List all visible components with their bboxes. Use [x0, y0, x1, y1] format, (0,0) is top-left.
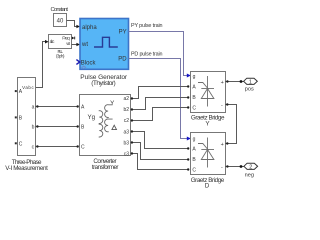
- svg-text:C: C: [81, 144, 85, 150]
- wire meas a to transformer A: [36, 105, 79, 107]
- svg-text:a2: a2: [123, 96, 129, 102]
- svg-text:b3: b3: [123, 140, 129, 146]
- wire Vabc to PLL abc: [36, 40, 49, 88]
- wire c2 to Y bridge C: [131, 106, 190, 121]
- pulse waveform icon: [94, 37, 118, 47]
- transformer Converter transformer block: [80, 95, 131, 171]
- svg-text:g: g: [193, 137, 196, 143]
- svg-text:a: a: [32, 104, 35, 110]
- svg-text:PY pulse train: PY pulse train: [131, 23, 163, 29]
- wire a2 to Y bridge A: [131, 85, 190, 99]
- svg-text:transformer: transformer: [92, 164, 119, 171]
- svg-text:(Thyristor): (Thyristor): [91, 80, 116, 87]
- wire Y+ to pos port: [225, 80, 244, 83]
- wire meas b to transformer B: [36, 125, 79, 127]
- svg-text:1: 1: [249, 80, 252, 86]
- Three-Phase V-I Measurement block: [5, 78, 48, 172]
- svg-text:-: -: [221, 102, 223, 108]
- svg-text:PD pulse train: PD pulse train: [131, 51, 163, 57]
- svg-text:pos: pos: [245, 87, 254, 93]
- constant block "40": [51, 7, 69, 27]
- svg-text:b2: b2: [123, 107, 129, 113]
- svg-text:PY: PY: [119, 29, 127, 35]
- svg-text:-: -: [221, 164, 223, 170]
- svg-text:Yg: Yg: [88, 114, 96, 121]
- wire PD pulse train: [129, 51, 191, 140]
- svg-text:Freq: Freq: [62, 35, 70, 40]
- svg-text:(3ph): (3ph): [56, 53, 65, 58]
- Graetz Bridge D block: [191, 133, 226, 190]
- svg-text:C: C: [19, 141, 23, 147]
- Graetz Bridge Y block: [191, 72, 226, 128]
- wire b3 to D bridge B: [131, 141, 190, 160]
- thyristor icon Y: [207, 76, 209, 107]
- svg-text:b: b: [32, 124, 35, 130]
- wire c3 to D bridge C: [131, 152, 190, 170]
- svg-text:c2: c2: [124, 118, 130, 124]
- svg-text:C: C: [192, 168, 196, 174]
- winding secondary lower Delta: [105, 119, 113, 132]
- svg-text:Vabc: Vabc: [22, 85, 34, 90]
- svg-text:Block: Block: [81, 60, 97, 66]
- svg-text:g: g: [193, 74, 196, 80]
- svg-text:2: 2: [249, 165, 252, 171]
- thyristor icon D: [207, 138, 209, 168]
- Block input chevron: [76, 60, 79, 65]
- wire PLL wt to Pulse Generator wt: [72, 43, 81, 47]
- wire Constant to alpha: [67, 21, 81, 29]
- svg-text:C: C: [192, 106, 196, 112]
- wire b2 to Y bridge B: [131, 96, 190, 110]
- winding primary lower: [99, 124, 103, 137]
- svg-text:V-I Measurement: V-I Measurement: [5, 165, 48, 172]
- svg-text:c3: c3: [124, 152, 130, 158]
- svg-text:abc: abc: [50, 39, 56, 44]
- svg-text:Constant: Constant: [51, 7, 69, 13]
- node neg connection port 2: [244, 163, 258, 178]
- svg-text:neg: neg: [245, 172, 254, 178]
- op-amp Pulse Generator (Thyristor) block: [76, 19, 128, 88]
- unconnected input stubs: [15, 90, 17, 92]
- svg-text:wt: wt: [81, 42, 88, 48]
- winding secondary upper Y: [105, 105, 113, 118]
- svg-text:40: 40: [57, 18, 64, 24]
- PLL block: [49, 35, 72, 59]
- svg-text:alpha: alpha: [82, 25, 97, 31]
- svg-text:a3: a3: [123, 129, 129, 135]
- svg-text:D: D: [205, 183, 210, 190]
- svg-text:+: +: [221, 142, 224, 148]
- svg-text:+: +: [221, 80, 224, 86]
- svg-text:Y: Y: [110, 100, 114, 107]
- svg-text:PD: PD: [118, 57, 127, 63]
- node pos connection port 1: [244, 78, 258, 92]
- wire a3 to D bridge A: [131, 130, 190, 149]
- Freq unconnected port arrow: [72, 37, 75, 40]
- badge under Block: [82, 66, 86, 69]
- wire meas c to transformer C: [36, 145, 79, 147]
- wire D- to neg port: [225, 165, 244, 168]
- wire Y- to D+: [225, 103, 237, 144]
- delta symbol: [112, 125, 117, 129]
- wire PY pulse train: [129, 23, 191, 77]
- winding primary upper: [99, 111, 103, 124]
